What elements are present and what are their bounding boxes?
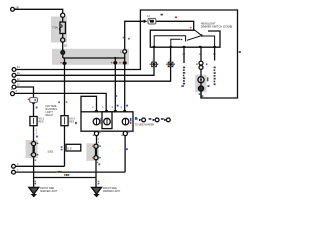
- svg-text:10: 10: [213, 53, 216, 56]
- svg-text:14: 14: [17, 66, 20, 69]
- svg-text:13: 13: [147, 15, 150, 18]
- svg-text:2B: 2B: [15, 6, 18, 10]
- svg-text:1: 1: [98, 141, 100, 144]
- svg-text:1E: 1E: [64, 43, 67, 47]
- svg-text:S201: S201: [48, 149, 55, 153]
- svg-text:RELAY: RELAY: [46, 114, 54, 117]
- svg-text:FRONT SIDE: FRONT SIDE: [103, 188, 117, 190]
- svg-text:FRONT SIDE: FRONT SIDE: [40, 188, 54, 190]
- svg-text:12: 12: [17, 78, 20, 81]
- svg-text:4: 4: [121, 106, 123, 109]
- svg-text:TO SIDE MARKER: TO SIDE MARKER: [135, 123, 155, 126]
- svg-text:2: 2: [17, 163, 19, 166]
- svg-text:3: 3: [112, 106, 114, 109]
- svg-text:MARKER LIGHT: MARKER LIGHT: [40, 190, 58, 193]
- svg-text:1: 1: [102, 106, 104, 109]
- svg-text:2: 2: [92, 106, 94, 109]
- svg-text:18: 18: [182, 53, 185, 56]
- svg-text:7.5A: 7.5A: [52, 26, 58, 30]
- svg-text:RES: RES: [39, 120, 44, 123]
- svg-text:1: 1: [36, 132, 38, 135]
- svg-text:13: 13: [17, 84, 20, 87]
- svg-text:MARKER LIGHT: MARKER LIGHT: [103, 190, 121, 193]
- svg-text:16: 16: [17, 72, 20, 75]
- svg-text:S 5: S 5: [67, 147, 72, 151]
- svg-text:DIMMER SWITCH [COMB]: DIMMER SWITCH [COMB]: [201, 25, 233, 29]
- svg-text:7: 7: [17, 169, 19, 172]
- svg-text:RES: RES: [69, 120, 74, 123]
